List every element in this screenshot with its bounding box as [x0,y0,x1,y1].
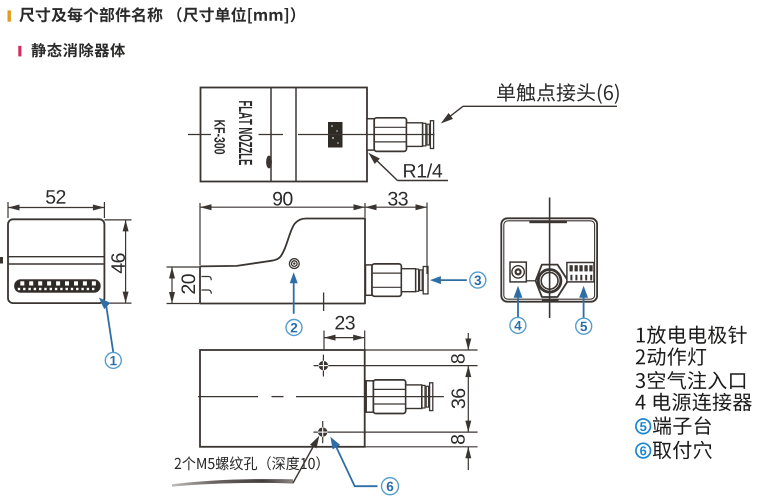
front view body [200,219,365,304]
label 2个M5螺纹孔（深度10） [175,456,320,470]
dimension 36 [451,366,471,433]
stray mark at left margin [0,257,3,264]
side view bottom notch [542,299,559,302]
dimension 20 [167,267,200,304]
top view product label [328,122,343,148]
top view fitting [367,118,434,152]
arrow to LED (2) [290,272,298,314]
top view body [201,88,368,182]
list item 1 放电电极针 [637,326,747,344]
header orange bar [8,10,11,21]
callout circle 6 [382,478,399,495]
callout circle 3 [470,272,486,288]
list item 6 取付穴 [636,441,712,459]
callout circle 5 [576,318,592,334]
top view partition lines [271,88,296,182]
side view top notch [529,220,567,223]
front view slot hooks [202,277,212,294]
front view hole position tick [323,293,325,312]
top view text FLAT NOZZLE [239,101,253,165]
power jack (4) [510,262,526,282]
left view inner lines [8,257,104,264]
list item 5 端子台 [636,416,711,435]
callout circle 2 [286,320,302,336]
hex nut air inlet [536,265,568,297]
arrow to terminal (5) [579,286,588,318]
arrow to mounting hole (6) [330,437,377,486]
side view outer body [501,218,597,301]
top view LED ellipse [266,156,272,169]
list item 2 动作灯 [636,348,706,366]
side view inner outline [504,221,595,299]
dimension 8 top [451,333,471,363]
extension lines right [314,331,478,447]
leader line M5 label [293,436,319,483]
leader line for 单触点接头 [441,106,617,123]
dimension 33 [365,192,427,274]
label R1/4 [404,163,442,177]
arrow to electrode slot (1) [99,298,114,353]
bottom view body [200,350,365,447]
callout circle 4 [510,317,526,333]
terminal block (5) [567,263,594,282]
arrow to jack (4) [514,286,523,318]
arrow to fitting (3) [430,276,467,284]
bottom view center line [198,396,444,398]
list item 3 空气注入口 [636,371,746,390]
dimension 52 [8,190,104,218]
subheader 静态消除器体 [32,43,126,58]
side view center line [549,198,551,319]
list item 4 电源连接器 [635,393,751,411]
dimension 8 bottom [451,435,471,470]
dimension 46 [104,220,131,303]
top view text KF-300 [214,120,225,154]
label 单触点接头(6) [497,83,619,104]
left view body [8,219,104,303]
front view LED (action lamp) [289,259,299,269]
electrode slot (1) [15,280,101,293]
dimension 90 [200,192,365,265]
leader line for R1/4 [368,153,448,181]
callout circle 1 [105,352,121,368]
M5 hole top [319,355,329,377]
top view center line [188,134,435,136]
M5 hole bottom [318,421,328,443]
front view fitting [366,264,429,296]
bottom view fitting [366,380,433,414]
dimension 23 [324,316,365,356]
subheader pink bar [18,46,21,57]
link lines [526,280,570,282]
header title 尺寸及每个部件名称（尺寸单位[mm]） [19,7,295,23]
